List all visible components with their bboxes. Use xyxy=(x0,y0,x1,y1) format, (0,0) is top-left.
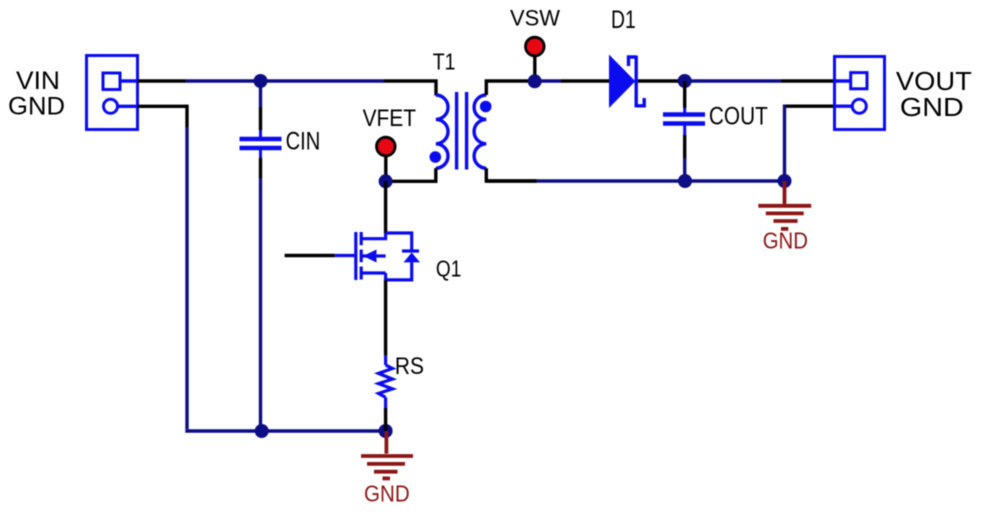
T1 secondary phase dot xyxy=(480,101,492,113)
node: VSW junction xyxy=(528,74,542,88)
Q1 drain lead xyxy=(361,233,385,239)
transformer T1 xyxy=(436,92,487,170)
node: COUT top junction xyxy=(678,74,692,88)
wire VFET node down to Q1 drain (black) xyxy=(384,181,387,233)
node: COUT bottom junction xyxy=(678,174,692,188)
node: CIN top junction xyxy=(254,74,268,88)
test point VSW xyxy=(526,37,545,56)
svg-text:Q1: Q1 xyxy=(436,255,461,281)
resistor RS xyxy=(379,356,393,408)
Q1 body diode loop bottom xyxy=(386,262,412,280)
Q1 bulk arrow line xyxy=(361,254,385,257)
wire VIN GND pin (black lead then navy down) xyxy=(138,105,188,108)
wire VSW node to D1 anode (navy then black) xyxy=(535,79,561,82)
ground GND left xyxy=(361,431,413,478)
svg-text:GND: GND xyxy=(763,228,808,254)
node: GND tap right xyxy=(778,174,792,188)
wire VOUT GND pin (navy corner up then black) xyxy=(785,106,787,181)
wire CIN top lead xyxy=(259,81,262,107)
wire gate (black) xyxy=(285,254,335,257)
Q1 body diode loop top xyxy=(386,233,412,250)
Q1 body diode cathode bar xyxy=(402,249,419,252)
capacitor CIN xyxy=(240,130,282,158)
Q1 gate lead (blue part) xyxy=(335,254,356,257)
node: CIN bottom junction xyxy=(255,424,269,438)
T1 core lines xyxy=(455,92,458,170)
svg-text:GND: GND xyxy=(364,481,410,507)
transistor Q1 (NMOS with body diode) xyxy=(335,232,419,280)
Q1 source lead xyxy=(361,271,385,274)
test point VFET xyxy=(377,137,396,156)
ground GND right xyxy=(758,181,811,229)
Q1 bulk arrow head xyxy=(363,250,377,263)
node: VFET junction xyxy=(379,174,393,188)
svg-text:VIN: VIN xyxy=(16,67,60,95)
svg-text:CIN: CIN xyxy=(286,128,321,156)
wire secondary bottom net (black then navy) xyxy=(486,179,537,182)
T1 secondary top lead (black) xyxy=(486,81,528,95)
svg-text:VFET: VFET xyxy=(363,105,417,132)
Q1 channel segments xyxy=(360,232,363,245)
capacitor COUT xyxy=(683,81,686,108)
wire CIN bottom lead to bottom net xyxy=(259,158,262,178)
svg-text:VSW: VSW xyxy=(510,6,560,31)
wire CIN node to transformer T1 primary top (black pin lead) xyxy=(384,81,436,96)
wire bottom net (navy) xyxy=(185,429,385,432)
wire D1 cathode to COUT node (black) xyxy=(638,79,685,82)
diode D1 (schottky) xyxy=(609,55,635,109)
svg-text:GND: GND xyxy=(8,93,65,121)
svg-text:GND: GND xyxy=(900,92,964,122)
T1 secondary winding arcs xyxy=(474,95,486,168)
svg-text:RS: RS xyxy=(395,353,424,380)
Q1 gate bar xyxy=(354,232,357,280)
svg-text:COUT: COUT xyxy=(709,103,768,131)
T1 primary winding arcs xyxy=(436,95,448,168)
svg-text:D1: D1 xyxy=(611,6,636,34)
Q1 body diode triangle xyxy=(404,253,421,263)
wire VIN pin to CIN node (black then navy) xyxy=(138,79,186,82)
wire COUT node to VOUT pin (navy then black) xyxy=(685,79,781,82)
wire RS bottom lead (black) xyxy=(384,408,387,431)
connector J1 VIN/GND xyxy=(87,56,138,130)
T1 primary phase dot xyxy=(430,151,442,163)
T1 primary bottom lead (black) xyxy=(386,168,436,181)
svg-text:T1: T1 xyxy=(433,48,456,74)
node: RS bottom junction xyxy=(379,424,393,438)
connector J2 VOUT/GND xyxy=(834,57,885,130)
wire Q1 source down to RS (black) xyxy=(384,280,387,356)
T1 secondary bottom lead (black) xyxy=(486,168,537,181)
